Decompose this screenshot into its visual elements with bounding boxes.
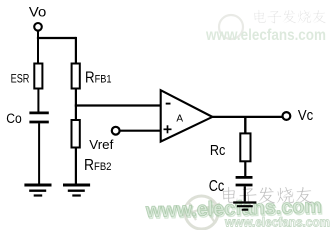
- ground under Cc: [233, 203, 256, 210]
- node Vo terminal: [34, 23, 42, 31]
- svg-text:Cc: Cc: [209, 178, 225, 195]
- terminal Vc: [283, 112, 291, 120]
- svg-text:www.elecfans.com: www.elecfans.com: [224, 215, 330, 230]
- op-amp plus sign: [164, 125, 172, 133]
- svg-text:Rc: Rc: [210, 142, 226, 159]
- resistor RFB1: [72, 64, 80, 89]
- wire: junction down to Rc: [244, 117, 246, 133]
- svg-text:ESR: ESR: [11, 74, 30, 86]
- resistor Rc: [240, 133, 250, 161]
- wire: Vo down to ESR: [37, 31, 39, 64]
- wire: RFB1 to RFB2: [75, 89, 77, 121]
- terminal Vref: [112, 127, 120, 135]
- capacitor Cc: [236, 177, 253, 185]
- wire: branch down to RFB1: [75, 37, 77, 64]
- watermark: [145, 10, 330, 230]
- svg-text:Vc: Vc: [298, 107, 314, 124]
- wire: Co to ground: [38, 123, 40, 184]
- wire: Rc to Cc: [244, 161, 246, 176]
- svg-text:www.elecfans.com: www.elecfans.com: [205, 27, 326, 44]
- resistor ESR: [34, 64, 42, 89]
- capacitor Co: [29, 113, 48, 122]
- op-amp A: [161, 90, 213, 141]
- node: feedback tap to op-amp inverting input: [75, 104, 161, 106]
- wire: Vref to op-amp non-inverting input: [120, 130, 161, 132]
- svg-text:Co: Co: [6, 111, 22, 126]
- op-amp minus sign: [166, 103, 171, 105]
- ground under RFB2: [63, 185, 90, 196]
- wire: ESR to Co: [37, 89, 39, 113]
- resistor RFB2: [72, 120, 80, 148]
- ground under Co: [24, 185, 51, 196]
- svg-text:A: A: [176, 113, 183, 124]
- wire: op-amp output to Vc: [212, 116, 282, 118]
- wire: Cc to ground: [244, 186, 246, 201]
- wire: branch horizontal: [37, 37, 76, 39]
- svg-text:Vo: Vo: [29, 4, 46, 19]
- wire: RFB2 to ground: [75, 148, 77, 185]
- svg-text:Vref: Vref: [89, 138, 114, 152]
